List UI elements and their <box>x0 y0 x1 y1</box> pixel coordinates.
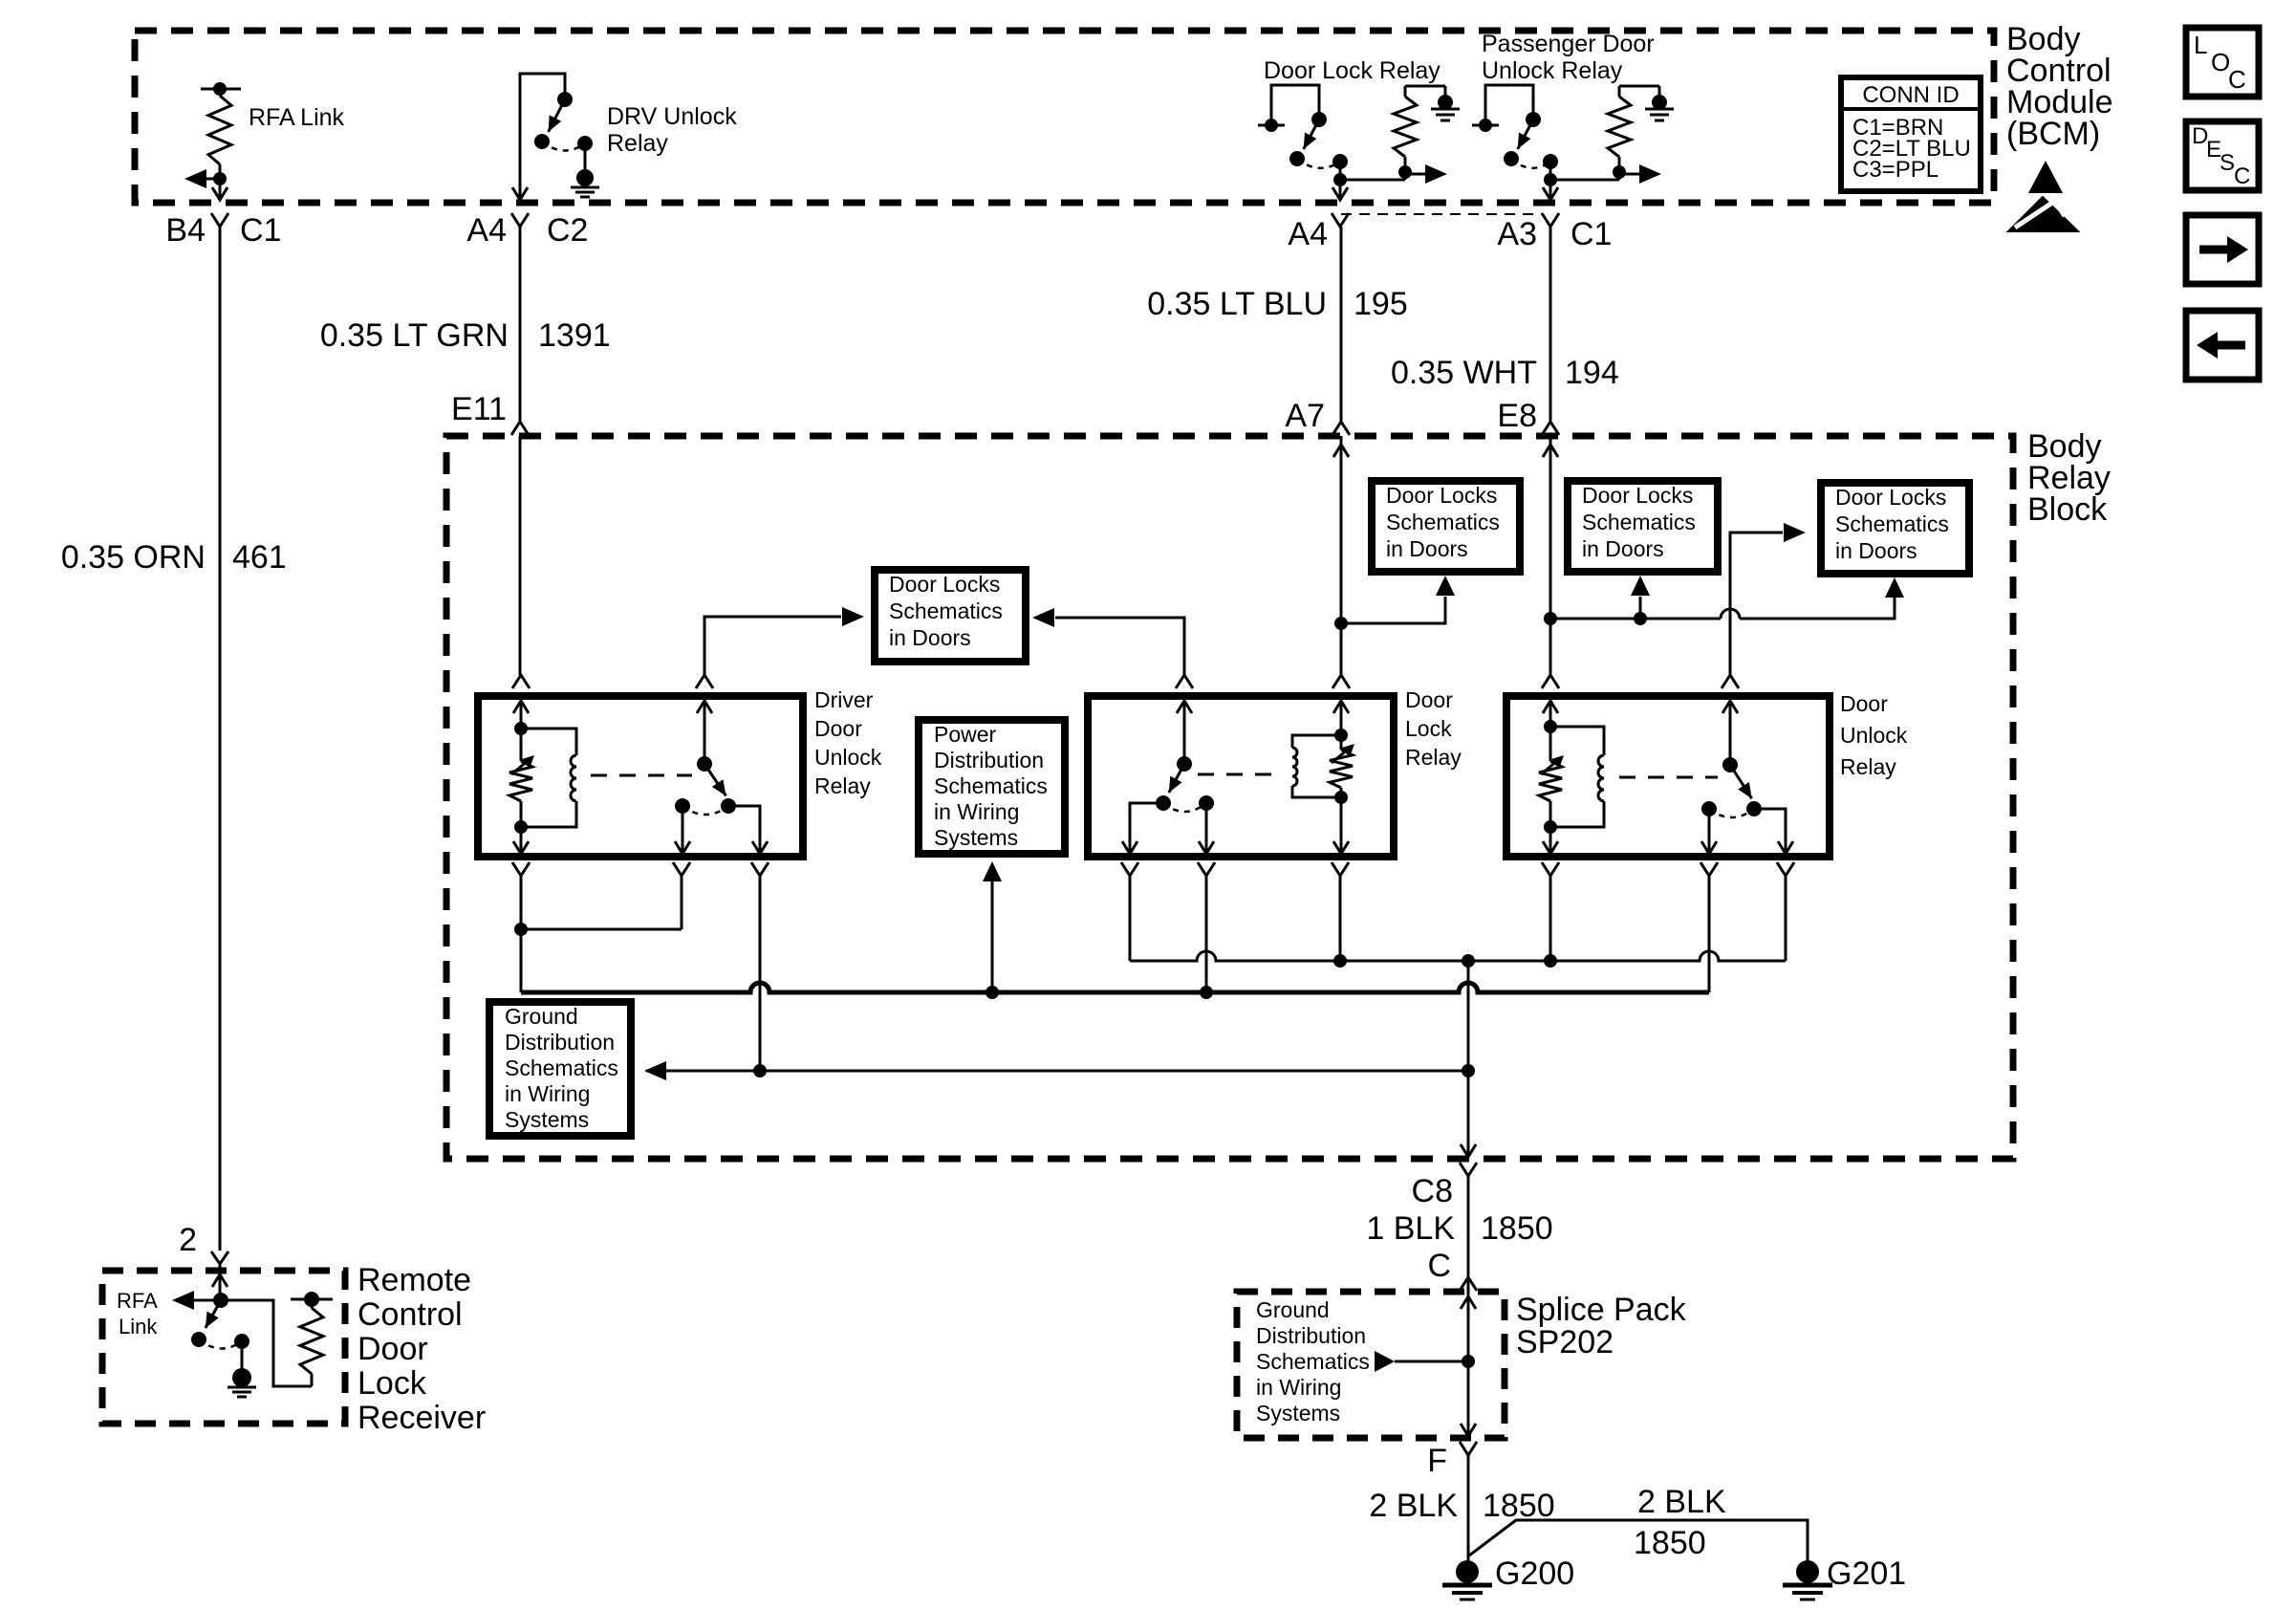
svg-text:Door Locks: Door Locks <box>1582 483 1693 508</box>
svg-text:A3: A3 <box>1497 216 1537 252</box>
connector fork B4/C1 <box>211 213 228 227</box>
junction dot exit on ground bus <box>1462 1064 1475 1077</box>
junction dot passenger resistor bottom <box>1613 165 1626 179</box>
entry arrow driver pin1 <box>513 701 529 713</box>
svg-text:Relay: Relay <box>1405 745 1462 770</box>
wire passenger resistor top to ground <box>1619 85 1659 88</box>
wire schematics to splice wire <box>1395 1360 1468 1363</box>
edge arrow up E8 <box>1549 436 1552 615</box>
fork doorlock exit NC <box>1198 862 1215 876</box>
svg-text:1850: 1850 <box>1483 1488 1555 1524</box>
junction dot remote pivot <box>213 1293 228 1308</box>
resistor arrow doorlock <box>1332 749 1349 763</box>
fork unlock pin1 <box>1542 675 1559 688</box>
fork unlock exit NC <box>1700 862 1718 876</box>
wire doorlock sw pin down <box>1129 876 1132 961</box>
fork driver exit sw <box>751 862 769 876</box>
svg-text:1850: 1850 <box>1634 1525 1706 1561</box>
svg-text:Ground: Ground <box>1256 1297 1330 1322</box>
arrow into box1 right <box>1032 608 1054 627</box>
svg-text:C: C <box>2234 163 2250 189</box>
branch wire to G201 <box>1469 1520 1808 1562</box>
ground remote receiver <box>232 1368 251 1387</box>
wire driver switch out <box>728 806 760 854</box>
svg-text:RFA Link: RFA Link <box>249 104 345 131</box>
arrow from schematics text <box>1375 1351 1395 1372</box>
svg-text:Control: Control <box>357 1296 463 1333</box>
wire E8 to box3 and box4 <box>1550 618 1721 620</box>
coil unlock relay <box>1550 727 1604 755</box>
svg-text:1 BLK: 1 BLK <box>1366 1210 1455 1247</box>
wire doorlock NC pin down <box>1205 876 1208 992</box>
svg-text:Ground: Ground <box>505 1004 578 1029</box>
resistor arrow driver <box>511 760 529 774</box>
svg-text:Schematics: Schematics <box>1835 511 1949 536</box>
svg-text:in Doors: in Doors <box>1835 538 1917 563</box>
switch arm passenger relay <box>1518 120 1533 149</box>
svg-text:Door: Door <box>1405 687 1453 712</box>
arrow into box2 <box>1436 576 1455 596</box>
connector fork C <box>1460 1277 1477 1291</box>
dashed actuator line doorlock <box>1198 773 1272 776</box>
svg-text:RFA: RFA <box>117 1289 158 1313</box>
junction dot unlock coil bottom <box>1544 820 1557 834</box>
svg-text:Lock: Lock <box>1405 716 1452 741</box>
wire doorlock switch out <box>1130 803 1163 854</box>
DRV unlock relay feed bend <box>520 74 565 199</box>
ref box Door Locks Schematics in Doors 3 <box>1568 481 1718 572</box>
wire 0.35 LT GRN 1391 <box>519 227 522 421</box>
wire unlock NC down <box>1708 809 1711 854</box>
entry arrow doorlock pin1 <box>1177 701 1192 713</box>
svg-text:Door: Door <box>357 1331 428 1367</box>
fork driver exit NC <box>673 862 690 876</box>
junction dot doorlock coil top <box>1334 729 1348 742</box>
wire E8 into relay <box>1549 619 1552 675</box>
contact dot unlock (NC) <box>1701 801 1717 816</box>
fork driver exit coil <box>512 862 530 876</box>
junction dot doorlock coil on lineA <box>1333 954 1347 968</box>
svg-text:1850: 1850 <box>1481 1210 1553 1247</box>
wire 0.35 LT BLU 195 (A4 to A7) <box>1340 227 1343 421</box>
svg-text:C3=PPL: C3=PPL <box>1852 157 1939 183</box>
svg-text:461: 461 <box>232 539 287 576</box>
wire 0.35 ORN 461 (B4 to receiver) <box>219 227 222 1251</box>
svg-text:S: S <box>2220 150 2235 176</box>
ground DRV unlock relay <box>576 169 594 186</box>
svg-text:0.35 ORN: 0.35 ORN <box>61 539 206 576</box>
pivot dot DRV unlock relay <box>557 92 573 107</box>
fork unlock pin2 <box>1722 675 1739 688</box>
svg-text:Splice Pack: Splice Pack <box>1516 1292 1687 1328</box>
svg-text:DRV Unlock: DRV Unlock <box>607 103 737 130</box>
svg-text:Schematics: Schematics <box>1582 510 1696 534</box>
right arrow icon box <box>2186 215 2259 284</box>
svg-text:in Doors: in Doors <box>1582 536 1664 561</box>
switch arm unlock relay <box>1730 765 1752 798</box>
exit arrow splice <box>1461 1424 1476 1436</box>
connector fork A4 relay <box>1332 213 1349 227</box>
dashed arc doorlock contacts <box>1163 803 1206 812</box>
resistor driver relay <box>509 761 532 801</box>
svg-text:Systems: Systems <box>505 1107 589 1132</box>
resistor remote receiver <box>300 1308 323 1374</box>
dashed arc unlock contacts <box>1709 809 1754 817</box>
LOC icon box <box>2186 28 2259 97</box>
Splice Pack dashed box <box>1237 1292 1505 1438</box>
svg-text:2 BLK: 2 BLK <box>1369 1488 1458 1524</box>
svg-text:Block: Block <box>2027 491 2108 528</box>
svg-text:Door Locks: Door Locks <box>1386 483 1497 508</box>
svg-text:Schematics: Schematics <box>934 773 1048 798</box>
relay box Door Unlock Relay <box>1506 696 1830 857</box>
ground stem remote <box>241 1341 244 1369</box>
left arrow icon <box>2218 341 2245 350</box>
fork doorlock pin1 <box>1176 675 1193 688</box>
wire driver NC down <box>682 806 684 854</box>
edge arrow up A7 <box>1340 436 1343 620</box>
ground door lock relay <box>1438 95 1453 110</box>
svg-text:F: F <box>1427 1443 1447 1479</box>
svg-text:in Wiring: in Wiring <box>505 1081 590 1106</box>
edge arrow down C8 <box>1461 1144 1476 1157</box>
svg-text:E8: E8 <box>1497 398 1537 434</box>
svg-text:SP202: SP202 <box>1516 1324 1614 1360</box>
wire driver junction to bus <box>520 929 523 992</box>
pivot dot door lock relay <box>1311 112 1327 127</box>
svg-text:0.35 WHT: 0.35 WHT <box>1391 355 1537 391</box>
edge arrow down A4 <box>512 187 528 200</box>
svg-text:A7: A7 <box>1285 398 1325 434</box>
Body Relay Block dashed box <box>446 436 2013 1159</box>
dashed arc DRV unlock contacts <box>542 141 585 151</box>
wire unlock NC pin down <box>1708 876 1711 992</box>
ref box Power Distribution Schematics <box>919 720 1065 854</box>
svg-text:Schematics: Schematics <box>1386 510 1500 534</box>
pivot dot unlock relay <box>1722 757 1738 772</box>
svg-text:CONN ID: CONN ID <box>1862 82 1959 108</box>
ref box Ground Distribution Schematics <box>489 1002 631 1136</box>
wire doorlock NC down <box>1205 803 1208 854</box>
left arrow icon box <box>2186 311 2259 380</box>
Remote Control dashed box <box>102 1271 345 1424</box>
junction dot driver pins <box>514 923 528 936</box>
arrow into power box <box>983 861 1002 881</box>
right arrow icon <box>2199 246 2227 254</box>
ESD sensitive device symbol <box>2028 161 2063 193</box>
exit arrow doorlock NC <box>1199 841 1214 854</box>
wire resistor top to ground <box>1405 85 1445 88</box>
svg-text:Unlock: Unlock <box>814 745 882 770</box>
wire unlock out pin down <box>1785 876 1787 961</box>
svg-text:Door Locks: Door Locks <box>1835 485 1946 510</box>
entry arrow splice <box>1461 1296 1476 1309</box>
wire unlock pivot to box4 <box>1730 533 1783 675</box>
svg-text:A4: A4 <box>466 212 507 249</box>
wire driver pivot to box1 <box>704 617 841 675</box>
svg-text:Driver: Driver <box>814 687 874 712</box>
ref box Door Locks Schematics in Doors 2 <box>1372 481 1520 572</box>
CONN ID box <box>1841 77 1981 191</box>
contact dot remote (NC) <box>234 1334 249 1349</box>
junction dot RFA link bottom <box>213 172 227 185</box>
arrow out right (passenger) <box>1619 173 1640 176</box>
fork unlock exit sw <box>1777 862 1794 876</box>
ground stem DRV unlock <box>584 143 587 170</box>
wire E11 into block <box>519 436 522 675</box>
arrow into box4 bottom <box>1885 577 1904 598</box>
switch arm door lock relay <box>1304 120 1319 149</box>
wire junction to resistor <box>1340 179 1405 182</box>
resistor passenger relay coil <box>1608 97 1631 157</box>
contact dot DRV unlock (NC) <box>577 136 593 151</box>
switch arm doorlock relay <box>1169 764 1184 793</box>
resistor RFA Link <box>208 96 231 164</box>
svg-text:C1: C1 <box>240 212 281 249</box>
ground passenger relay <box>1652 95 1667 110</box>
wire RFA link down to edge <box>219 179 222 199</box>
connector fork C8 <box>1460 1163 1477 1176</box>
junction dot unlock coil top <box>1544 720 1557 733</box>
entry arrow doorlock pin2 <box>1333 701 1349 713</box>
wire unlock switch out <box>1754 809 1786 854</box>
contact dot remote (NO) <box>191 1332 206 1347</box>
entry arrow unlock pin1 <box>1543 701 1558 713</box>
node B+ T-bar (RFA link top) <box>201 88 241 91</box>
svg-text:1391: 1391 <box>538 317 611 354</box>
wire doorlock coil down <box>1340 797 1343 854</box>
wire stem box3 <box>1639 597 1642 619</box>
exit arrow driver NC <box>675 841 690 854</box>
connector fork A3/C1 <box>1542 213 1559 227</box>
fork driver pin1 <box>512 675 530 688</box>
edge arrow down B4 <box>212 187 227 200</box>
junction dot doorlock coil bottom <box>1334 791 1348 804</box>
exit arrow unlock out <box>1778 841 1793 854</box>
svg-text:0.35 LT GRN: 0.35 LT GRN <box>320 317 509 354</box>
pivot dot passenger relay <box>1526 112 1541 127</box>
junction dot unlock coil on lineA <box>1544 954 1557 968</box>
ground bus line <box>646 1070 1468 1073</box>
svg-text:C: C <box>1427 1248 1451 1284</box>
junction dot A7 line <box>1334 617 1348 630</box>
arrow out right (door lock) <box>1405 173 1426 176</box>
svg-text:Power: Power <box>934 722 997 747</box>
wire exit drop (crosses bus) <box>1467 961 1470 1157</box>
junction dot door lock out <box>1333 173 1347 186</box>
wire NC to junction (passenger) <box>1549 162 1552 180</box>
svg-text:Link: Link <box>119 1315 158 1338</box>
junction dot E8 line <box>1544 612 1557 625</box>
exit arrow doorlock coil <box>1333 841 1349 854</box>
svg-text:0.35 LT BLU: 0.35 LT BLU <box>1147 286 1327 322</box>
entry arrow remote <box>219 1264 222 1300</box>
relay box Door Lock Relay <box>1088 696 1394 857</box>
coil driver relay <box>521 729 576 755</box>
connector fork A4/C2 <box>511 213 529 227</box>
svg-text:Schematics: Schematics <box>1256 1349 1370 1374</box>
switch arm driver relay <box>704 764 726 795</box>
svg-text:(BCM): (BCM) <box>2006 116 2100 152</box>
junction dot box3 stem <box>1634 612 1647 625</box>
svg-text:C: C <box>2228 65 2246 94</box>
svg-text:Unlock Relay: Unlock Relay <box>1482 57 1623 84</box>
junction dot driver out on ground bus <box>753 1064 767 1077</box>
svg-text:Systems: Systems <box>1256 1401 1340 1425</box>
contact dot passenger (NO) <box>1504 151 1519 166</box>
svg-text:Door: Door <box>1840 691 1888 716</box>
svg-text:E11: E11 <box>451 391 507 427</box>
svg-text:G200: G200 <box>1495 1556 1574 1592</box>
wire door lock out to edge <box>1339 180 1342 199</box>
wire doorlock coil pin down <box>1339 876 1342 961</box>
junction dot driver coil bottom <box>514 820 528 834</box>
pivot dot driver relay <box>697 756 712 772</box>
node T-bar door lock relay <box>1258 124 1285 127</box>
wire unlock coil down <box>1549 827 1552 854</box>
wire driver NC pin down <box>681 876 683 929</box>
arrow to ground dist box <box>644 1061 666 1080</box>
bridge wire door lock relay <box>1271 85 1319 125</box>
contact dot door lock (NO) <box>1289 151 1305 166</box>
junction dot splice <box>1462 1355 1475 1368</box>
svg-text:Distribution: Distribution <box>505 1030 615 1055</box>
contact dot passenger (NC) <box>1543 154 1558 169</box>
svg-text:Relay: Relay <box>607 130 668 157</box>
ref box Door Locks Schematics in Doors 1 <box>875 570 1026 662</box>
bus line (lock commons) <box>521 983 1709 992</box>
junction dot driver coil top <box>514 722 528 735</box>
svg-text:Schematics: Schematics <box>889 598 1003 623</box>
wire driver coil pin down <box>520 876 523 929</box>
fork driver pin2 <box>696 675 713 688</box>
svg-text:195: 195 <box>1354 286 1408 322</box>
exit arrow driver out <box>752 841 768 854</box>
bridge wire passenger relay <box>1485 85 1533 125</box>
svg-text:Door: Door <box>814 716 862 741</box>
connector fork F <box>1460 1442 1477 1455</box>
connector fork E11 <box>511 422 529 435</box>
svg-text:Relay: Relay <box>1840 754 1896 779</box>
thin dashed connector line A4-A3 <box>1341 213 1542 215</box>
svg-text:2 BLK: 2 BLK <box>1637 1484 1726 1520</box>
arrow to RFA link <box>172 1291 194 1310</box>
svg-text:G201: G201 <box>1827 1556 1906 1592</box>
svg-text:Lock: Lock <box>357 1365 427 1402</box>
svg-text:194: 194 <box>1565 355 1619 391</box>
arrow to RFA (left) <box>184 169 206 188</box>
svg-text:in Doors: in Doors <box>1386 536 1468 561</box>
svg-text:in Wiring: in Wiring <box>1256 1375 1341 1400</box>
dashed arc driver contacts <box>682 806 728 815</box>
DESC icon box <box>2186 121 2259 190</box>
contact dot doorlock (NO side) <box>1156 795 1171 811</box>
contact dot unlock (NO side) <box>1746 801 1762 816</box>
resistor arrow unlock <box>1541 760 1558 774</box>
fork doorlock exit sw <box>1121 862 1138 876</box>
wire driver out pin down (crosses bus) <box>759 876 762 1071</box>
coil doorlock relay <box>1292 735 1341 748</box>
ground G201 <box>1796 1560 1819 1583</box>
junction dot exit top <box>1462 954 1475 968</box>
exit arrow unlock coil <box>1543 841 1558 854</box>
wire F to grounds <box>1467 1455 1470 1562</box>
connector fork A7 <box>1332 422 1350 435</box>
arrow into box3 <box>1631 576 1650 596</box>
dashed actuator line unlock <box>1619 776 1718 779</box>
svg-text:Distribution: Distribution <box>934 748 1044 772</box>
wire remote pivot to resistor <box>221 1300 312 1386</box>
svg-text:in Wiring: in Wiring <box>934 799 1019 824</box>
contact dot DRV unlock (NO) <box>534 134 550 149</box>
svg-text:Systems: Systems <box>934 825 1018 850</box>
fork unlock exit coil <box>1542 862 1559 876</box>
svg-text:C2: C2 <box>547 212 588 249</box>
wire splice down <box>1467 1361 1470 1436</box>
svg-text:C1: C1 <box>1570 216 1612 252</box>
fork doorlock pin2 <box>1332 675 1350 688</box>
wire C8 to splice <box>1467 1176 1470 1276</box>
node T-bar remote resistor <box>291 1298 333 1301</box>
node T-bar passenger relay <box>1472 124 1499 127</box>
svg-text:Remote: Remote <box>357 1262 471 1298</box>
exit arrow driver coil <box>513 841 529 854</box>
BCM dashed box (Body Control Module) <box>135 31 1994 203</box>
resistor doorlock relay <box>1330 750 1353 788</box>
contact dot driver (NC) <box>675 798 690 814</box>
entry arrow driver pin2 <box>697 701 712 713</box>
ref box Door Locks Schematics in Doors 4 <box>1821 483 1969 574</box>
wire doorlock pin to box1 <box>1055 618 1184 675</box>
wire passenger out to edge <box>1549 180 1552 199</box>
svg-text:Passenger Door: Passenger Door <box>1482 31 1655 57</box>
svg-text:in Doors: in Doors <box>889 625 971 650</box>
svg-text:Door Lock Relay: Door Lock Relay <box>1264 57 1440 84</box>
arrow into box1 left <box>842 607 864 626</box>
pivot dot doorlock relay <box>1177 756 1192 772</box>
svg-text:Door Locks: Door Locks <box>889 572 1000 597</box>
contact dot doorlock (NC) <box>1199 795 1214 811</box>
contact dot door lock (NC) <box>1332 154 1348 169</box>
wire A7 into relay <box>1340 623 1343 675</box>
junction dot power stem <box>986 986 999 999</box>
wire unlock coil pin down <box>1549 876 1552 961</box>
edge arrow down A3 <box>1543 187 1558 200</box>
dashed arc remote contacts <box>199 1339 242 1349</box>
svg-text:A4: A4 <box>1288 216 1328 252</box>
connector fork remote entry <box>211 1251 228 1264</box>
line A (unlock commons) <box>1130 951 1786 961</box>
exit arrow doorlock sw <box>1122 841 1137 854</box>
jumper driver pins <box>521 928 682 931</box>
svg-text:Relay: Relay <box>814 773 871 798</box>
svg-text:L: L <box>2194 31 2207 59</box>
svg-text:B4: B4 <box>165 212 206 249</box>
resistor door lock relay coil <box>1394 97 1417 157</box>
exit arrow unlock NC <box>1701 841 1717 854</box>
fork doorlock exit coil <box>1332 862 1349 876</box>
wire junction to resistor (passenger) <box>1550 179 1619 182</box>
dashed arc passenger contacts <box>1511 159 1550 168</box>
relay box Driver Door Unlock <box>478 696 803 857</box>
switch arm DRV unlock relay <box>549 99 565 132</box>
dashed arc door lock contacts <box>1297 159 1340 168</box>
svg-text:2: 2 <box>179 1222 197 1258</box>
dashed actuator line driver <box>591 774 692 777</box>
edge arrow down A4 (relay) <box>1332 187 1348 200</box>
connector fork E8 <box>1542 422 1559 435</box>
contact dot driver (NO side) <box>721 798 736 814</box>
